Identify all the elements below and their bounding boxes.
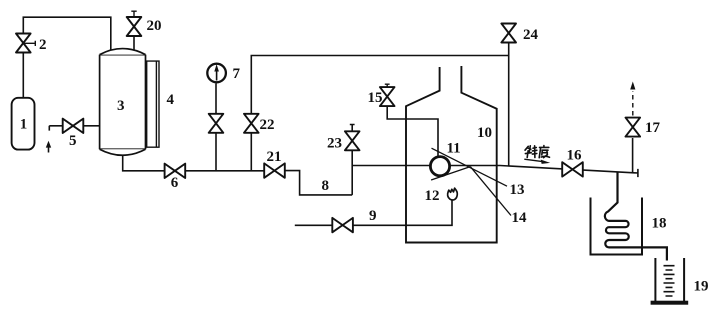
- pressure gauge 7: [207, 64, 226, 83]
- wire flame stem and gas line 9: [295, 201, 452, 226]
- svg-text:16: 16: [567, 148, 583, 164]
- valve 21: [264, 163, 285, 177]
- wire valve22 up and top line to valve24: [251, 56, 508, 114]
- gas cylinder 1: [12, 98, 35, 150]
- wire vessel3 outlet to valve6: [123, 155, 165, 171]
- wire valve20 stub top tick: [131, 11, 136, 17]
- vessel 3 bottom cap: [100, 149, 146, 155]
- gauge isolation valve: [209, 114, 224, 133]
- svg-text:21: 21: [267, 149, 282, 165]
- measuring cylinder 19 base: [651, 301, 689, 305]
- wire valve23 riser: [350, 124, 355, 195]
- jacket 4: [147, 61, 159, 147]
- nozzle cone lower line: [431, 167, 470, 180]
- svg-text:15: 15: [368, 90, 383, 106]
- vessel 3 body: [100, 55, 146, 150]
- nozzle circle 11: [430, 157, 449, 176]
- valve 6: [165, 164, 186, 178]
- valve 24: [501, 24, 516, 43]
- valve 17: [626, 118, 641, 137]
- valve 16: [562, 162, 583, 176]
- svg-text:1: 1: [20, 117, 28, 133]
- wire trap section 8: [285, 171, 352, 195]
- svg-text:22: 22: [260, 117, 275, 133]
- svg-text:24: 24: [523, 27, 539, 43]
- slope label 斜度 drawn strokes: [525, 146, 550, 158]
- main tube horizontal then sloped with end tick: [352, 166, 638, 178]
- wire valve2 top loop to vessel3 top: [23, 17, 111, 49]
- svg-text:5: 5: [69, 133, 77, 149]
- wire valve6 to valve21: [185, 170, 264, 172]
- dashed vent arrow above valve17: [632, 91, 634, 116]
- svg-text:19: 19: [694, 279, 709, 295]
- svg-text:3: 3: [117, 98, 125, 114]
- svg-text:12: 12: [425, 188, 440, 204]
- valve on line 9: [332, 218, 353, 232]
- vessel 3 top cap: [100, 49, 146, 55]
- wire gauge branch: [215, 84, 217, 171]
- svg-text:8: 8: [322, 178, 330, 194]
- leader to 14 from cone apex: [470, 167, 511, 216]
- valve 23: [345, 131, 360, 150]
- water bath box 18: [591, 198, 643, 255]
- svg-text:14: 14: [512, 210, 528, 226]
- svg-text:9: 9: [369, 208, 377, 224]
- measuring cylinder 19 walls: [655, 258, 684, 302]
- valve 2 stem and tick: [24, 41, 35, 46]
- wire inlet with open end, valve5 to vessel3: [49, 126, 99, 131]
- vessel 10 outline with chimney: [406, 66, 497, 243]
- flow arrow below inlet: [48, 146, 50, 153]
- wire valve20 to vessel3 cap: [133, 36, 135, 50]
- svg-text:7: 7: [233, 66, 241, 82]
- svg-text:10: 10: [477, 125, 492, 141]
- svg-text:17: 17: [645, 120, 661, 136]
- leader to 13 over nozzle top: [432, 148, 508, 186]
- wire riser to valve17: [632, 138, 634, 173]
- slope arrow: [524, 159, 542, 161]
- burner flame 12: [448, 188, 458, 200]
- svg-text:4: 4: [167, 92, 175, 108]
- valve 15: [380, 87, 395, 106]
- wire from main line down into condenser coil 18 and out to beaker: [605, 172, 667, 261]
- wire valve15 stub tick: [385, 84, 390, 87]
- valve 2: [16, 34, 31, 53]
- svg-text:20: 20: [147, 18, 162, 34]
- wire valve24 down the long riser to sloped tube: [508, 43, 510, 166]
- wire valve22 branch down to main line: [250, 133, 252, 171]
- wire cylinder1 to valve2: [22, 52, 24, 98]
- wire valve15 pipe into vessel to nozzle 11: [387, 106, 438, 156]
- valve 22: [244, 114, 259, 133]
- svg-text:6: 6: [171, 175, 179, 191]
- valve 20: [127, 17, 142, 36]
- svg-text:2: 2: [39, 37, 47, 53]
- svg-text:23: 23: [327, 136, 342, 152]
- graduation marks: [664, 266, 675, 296]
- valve 5: [63, 119, 84, 133]
- svg-text:13: 13: [510, 182, 525, 198]
- svg-text:11: 11: [447, 141, 461, 157]
- svg-text:18: 18: [652, 216, 667, 232]
